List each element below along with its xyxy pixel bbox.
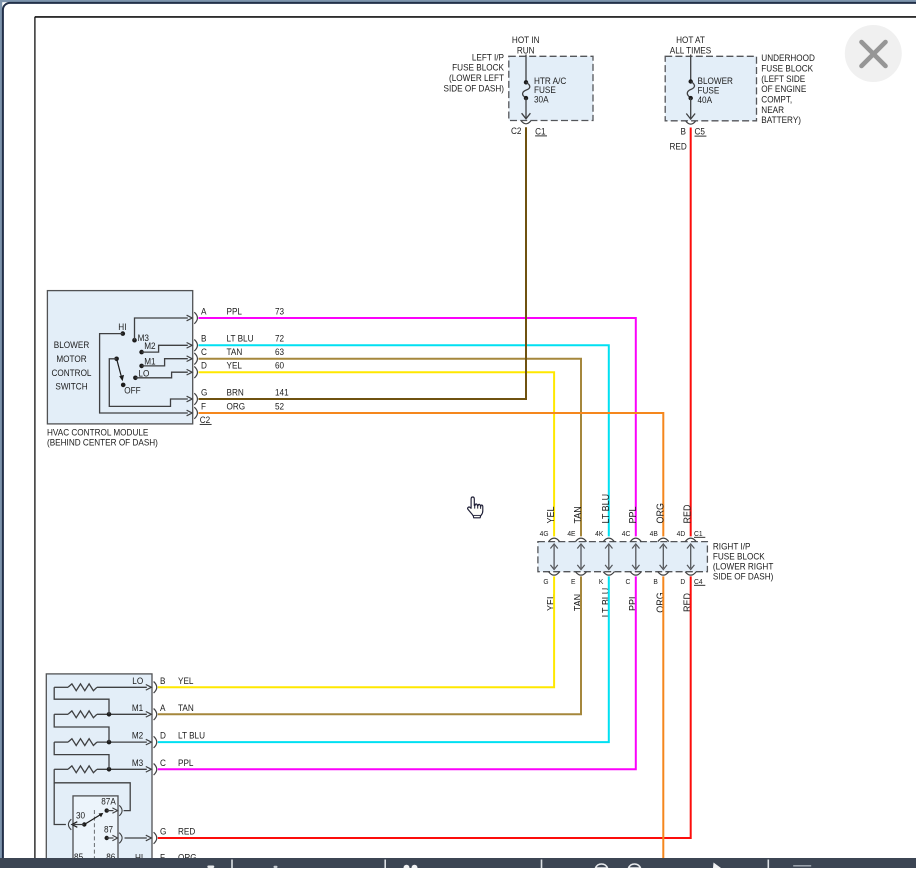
module pin bumps A-F	[194, 312, 197, 419]
svg-text:C: C	[625, 577, 630, 586]
wire M1 loop to M2 tap	[54, 714, 109, 742]
svg-text:LEFT I/P: LEFT I/P	[472, 52, 504, 62]
underhood fuse block box	[665, 56, 756, 121]
svg-text:G: G	[160, 827, 166, 837]
svg-text:ALL TIMES: ALL TIMES	[670, 45, 711, 55]
label BLOWER MOTOR CONTROL SWITCH	[51, 340, 91, 392]
svg-text:40A: 40A	[698, 95, 713, 105]
svg-text:HOT AT: HOT AT	[676, 35, 705, 45]
module wire color labels	[227, 306, 254, 411]
svg-text:M1: M1	[132, 703, 143, 713]
label UNDERHOOD FUSE BLOCK	[761, 53, 815, 125]
wire chain down to relay 30	[54, 783, 66, 825]
wire BRN 141 module G to left fuse block C1	[199, 127, 527, 399]
pin label C2 under module pins	[200, 415, 212, 425]
svg-text:UNDERHOOD: UNDERHOOD	[761, 53, 815, 63]
svg-text:(LEFT SIDE: (LEFT SIDE	[761, 74, 805, 84]
switch contact HI	[118, 322, 126, 336]
left I/P fuse block box	[509, 56, 593, 120]
wire M2 loop to M3 tap	[54, 742, 109, 769]
svg-text:MOTOR: MOTOR	[56, 354, 87, 364]
svg-text:CONTROL: CONTROL	[51, 368, 91, 378]
wire M3 loop to relay 87A	[54, 769, 130, 810]
svg-text:ORG: ORG	[655, 592, 666, 612]
svg-text:F: F	[201, 401, 206, 411]
svg-text:G: G	[201, 387, 207, 397]
caption HVAC CONTROL MODULE	[47, 427, 158, 447]
svg-text:87: 87	[104, 825, 113, 835]
svg-text:72: 72	[275, 334, 284, 344]
svg-text:K: K	[599, 577, 603, 586]
svg-text:RUN: RUN	[517, 45, 535, 55]
svg-text:(BEHIND CENTER OF DASH): (BEHIND CENTER OF DASH)	[47, 438, 158, 448]
wire ORG 52 module F to fuse block 4B	[199, 413, 664, 536]
svg-text:NEAR: NEAR	[761, 105, 784, 115]
relay pin 87A	[101, 796, 122, 816]
svg-text:C: C	[160, 758, 166, 768]
switch contact M2	[139, 341, 155, 355]
svg-text:D: D	[680, 577, 685, 586]
svg-text:B: B	[201, 334, 206, 344]
svg-text:OF ENGINE: OF ENGINE	[761, 84, 806, 94]
svg-text:HOT IN: HOT IN	[512, 35, 540, 45]
svg-text:LT BLU: LT BLU	[178, 731, 205, 741]
connector bump under underhood fuse block	[686, 121, 696, 124]
svg-text:LT BLU: LT BLU	[227, 334, 254, 344]
connector bump under left fuse block	[521, 121, 531, 124]
blower resistor box	[46, 674, 152, 864]
svg-text:(LOWER RIGHT: (LOWER RIGHT	[713, 562, 774, 572]
svg-text:C1: C1	[694, 529, 703, 538]
relay box	[73, 796, 118, 868]
svg-text:60: 60	[275, 361, 284, 371]
fuse block bottom pin labels	[543, 577, 705, 586]
wire YEL 60 module D to fuse block 4G	[199, 372, 555, 536]
svg-text:C: C	[201, 347, 207, 357]
fuse BLOWER 40A	[686, 55, 733, 120]
svg-text:YEL: YEL	[546, 506, 557, 523]
svg-text:TAN: TAN	[573, 594, 584, 611]
node HOT AT ALL TIMES label	[670, 35, 711, 55]
node HOT IN RUN label	[512, 35, 540, 55]
svg-text:FUSE BLOCK: FUSE BLOCK	[761, 64, 814, 74]
svg-text:C1: C1	[535, 126, 545, 136]
svg-text:SIDE OF DASH): SIDE OF DASH)	[444, 84, 504, 94]
close button X	[845, 25, 902, 82]
svg-text:G: G	[543, 577, 548, 586]
svg-text:YEL: YEL	[178, 676, 193, 686]
svg-text:BATTERY): BATTERY)	[761, 115, 801, 125]
svg-text:4K: 4K	[595, 529, 603, 538]
module pin letter labels	[201, 306, 207, 411]
svg-text:ORG: ORG	[227, 401, 246, 411]
resistor block pin letters	[160, 676, 166, 837]
switch contact LO	[133, 369, 149, 381]
wire LT BLU 72 module B to fuse block 4K	[199, 345, 609, 536]
wire PPL fuse block C to resistor C	[158, 576, 636, 769]
mouse hand cursor	[468, 497, 483, 518]
svg-text:30A: 30A	[534, 94, 549, 104]
svg-text:BLOWER: BLOWER	[54, 340, 90, 350]
relay wiper 30 to 87A	[84, 813, 103, 825]
wire LO contact to pin D	[135, 369, 192, 377]
fuse HTR A/C 30A	[522, 55, 567, 119]
svg-text:A: A	[160, 703, 166, 713]
svg-text:LT BLU: LT BLU	[601, 588, 612, 618]
svg-text:PPL: PPL	[628, 594, 639, 611]
svg-text:4C: 4C	[622, 529, 631, 538]
rotated wire labels below fuse block	[546, 588, 694, 618]
svg-text:HVAC CONTROL MODULE: HVAC CONTROL MODULE	[47, 427, 148, 437]
bottom toolbar	[0, 858, 916, 871]
resistor block wire color labels	[178, 676, 205, 837]
svg-text:4E: 4E	[567, 529, 575, 538]
svg-text:LT BLU: LT BLU	[601, 494, 612, 524]
fuse block top bumps	[549, 538, 697, 541]
fuse block top pin labels	[540, 529, 706, 538]
svg-text:4D: 4D	[677, 529, 686, 538]
svg-text:E: E	[571, 577, 575, 586]
svg-text:141: 141	[275, 387, 289, 397]
svg-text:LO: LO	[138, 369, 149, 379]
svg-text:YEL: YEL	[227, 361, 242, 371]
svg-text:TAN: TAN	[573, 506, 584, 523]
svg-text:PPL: PPL	[178, 758, 193, 768]
wire wiper to pin G	[109, 359, 192, 407]
wire LT BLU fuse block K to resistor D	[158, 576, 609, 742]
svg-text:TAN: TAN	[227, 347, 243, 357]
wire M3 contact to pin A	[135, 315, 193, 340]
bottom row HI F ORG labels	[135, 852, 197, 862]
svg-text:(LOWER LEFT: (LOWER LEFT	[449, 73, 504, 83]
svg-text:BRN: BRN	[227, 387, 244, 397]
wire M2 contact to pin B	[142, 343, 193, 353]
pin labels B C5	[670, 127, 707, 152]
svg-text:PPL: PPL	[628, 506, 639, 523]
module circuit numbers	[275, 306, 289, 411]
wire PPL 73 module A to fuse block 4C	[199, 318, 636, 536]
svg-text:COMPT,: COMPT,	[761, 95, 792, 105]
switch contact M1	[139, 357, 155, 369]
label RIGHT I/P FUSE BLOCK	[713, 542, 774, 582]
svg-text:87A: 87A	[101, 796, 116, 806]
wire TAN 63 module C to fuse block 4E	[199, 359, 582, 537]
svg-text:HI: HI	[118, 322, 126, 332]
svg-text:4B: 4B	[650, 529, 658, 538]
svg-text:FUSE: FUSE	[698, 86, 720, 96]
svg-text:OFF: OFF	[124, 386, 141, 396]
svg-text:RED: RED	[670, 142, 688, 152]
svg-text:B: B	[653, 577, 657, 586]
svg-text:30: 30	[76, 811, 85, 821]
resistor M1 row	[54, 703, 151, 718]
svg-text:C2: C2	[511, 126, 521, 136]
svg-text:73: 73	[275, 306, 284, 316]
svg-text:RIGHT I/P: RIGHT I/P	[713, 542, 751, 552]
svg-text:C4: C4	[694, 577, 703, 586]
wire HI contact to pin F	[100, 334, 193, 416]
svg-text:M3: M3	[132, 758, 143, 768]
wire LO loop to M1 tap	[54, 687, 109, 714]
svg-text:ORG: ORG	[655, 503, 666, 523]
svg-text:A: A	[201, 306, 207, 316]
wire RED underhood fuse C5 to fuse block 4D	[690, 128, 692, 537]
wire ORG fuse block B down	[662, 576, 664, 858]
HVAC control module box	[47, 291, 192, 424]
label LEFT I/P FUSE BLOCK	[444, 52, 505, 93]
svg-text:C2: C2	[200, 415, 210, 425]
relay pin 30	[68, 811, 86, 830]
right I/P fuse block box	[538, 542, 708, 572]
pin labels C2 C1	[511, 126, 547, 136]
svg-text:LO: LO	[132, 676, 143, 686]
svg-text:M2: M2	[144, 341, 155, 351]
wire TAN fuse block E to resistor A	[158, 576, 581, 714]
svg-text:B: B	[681, 127, 686, 137]
fuse block double arrows	[550, 544, 694, 570]
svg-text:SIDE OF DASH): SIDE OF DASH)	[713, 571, 773, 581]
svg-text:4G: 4G	[540, 529, 549, 538]
svg-text:RED: RED	[178, 827, 196, 837]
resistor LO row	[54, 676, 151, 691]
svg-text:RED: RED	[683, 593, 694, 612]
wire M1 contact to pin C	[142, 356, 193, 366]
svg-text:SWITCH: SWITCH	[55, 382, 87, 392]
svg-text:C5: C5	[695, 127, 705, 137]
switch wiper arm	[114, 357, 124, 382]
resistor M2 row	[54, 731, 151, 746]
resistor block pin bumps	[154, 682, 157, 844]
svg-text:M2: M2	[132, 731, 143, 741]
relay pins 85 86	[74, 852, 115, 862]
svg-text:D: D	[160, 731, 166, 741]
svg-text:TAN: TAN	[178, 703, 194, 713]
svg-text:FUSE BLOCK: FUSE BLOCK	[452, 63, 505, 73]
wire RED fuse block D to resistor G	[158, 576, 691, 838]
switch contact OFF	[121, 383, 141, 396]
svg-text:RED: RED	[683, 505, 694, 524]
svg-text:YEL: YEL	[546, 594, 557, 611]
fuse block bottom bumps	[549, 572, 697, 575]
relay pin 87	[104, 825, 151, 844]
svg-text:FUSE BLOCK: FUSE BLOCK	[713, 552, 766, 562]
svg-text:B: B	[160, 676, 165, 686]
svg-text:52: 52	[275, 401, 284, 411]
svg-text:M1: M1	[144, 357, 155, 367]
wire YEL fuse block G to resistor B	[158, 576, 554, 687]
resistor M3 row	[54, 758, 151, 773]
switch contact M3	[132, 333, 149, 343]
svg-text:63: 63	[275, 347, 284, 357]
svg-text:PPL: PPL	[227, 306, 242, 316]
rotated wire labels above fuse block	[546, 494, 694, 524]
svg-text:D: D	[201, 361, 207, 371]
